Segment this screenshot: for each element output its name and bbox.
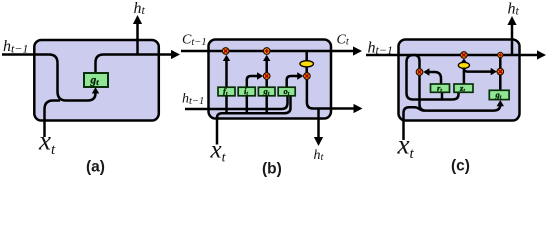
wire mulR down to cand C — [499, 75, 502, 91]
wire ellipse to mulL C — [463, 60, 466, 63]
svg-text:(a): (a) — [86, 159, 105, 176]
svg-text:ht−1: ht−1 — [368, 40, 393, 58]
gate i_t B — [238, 87, 255, 96]
arrow h right C — [537, 50, 546, 59]
svg-text:(b): (b) — [262, 161, 282, 178]
arrow into mul2 B — [257, 72, 263, 79]
wire x_t input A — [45, 101, 61, 138]
wire h line C — [366, 54, 538, 57]
svg-text:ht: ht — [134, 0, 146, 17]
cell box C — [399, 40, 520, 121]
gate r_t C — [431, 84, 450, 92]
gate cand g_t C — [489, 90, 509, 99]
wire mul2 to add B — [265, 59, 268, 73]
wire z branch to mulR C — [464, 68, 491, 72]
wire h bus B — [185, 96, 288, 109]
svg-text:xt: xt — [38, 126, 56, 159]
arrow into g_t A — [92, 87, 99, 93]
node add B — [263, 48, 270, 55]
gate f_t B — [218, 87, 235, 96]
wire h output B — [307, 79, 354, 108]
arrow into mulM C — [423, 68, 429, 75]
wire h_t down branch B — [317, 109, 320, 140]
ellipse 1-z C — [458, 62, 469, 68]
node mulR C — [497, 68, 504, 75]
svg-text:ht−1: ht−1 — [3, 38, 28, 56]
node mulL C — [461, 52, 468, 59]
wire h_{t-1} input A — [2, 55, 96, 101]
wire tanh branch B — [305, 51, 308, 61]
svg-text:xt: xt — [397, 130, 415, 163]
arrow into cand gate C — [497, 100, 504, 106]
wire z riser C — [463, 68, 466, 84]
gate g_t B — [258, 87, 275, 96]
svg-text:gt: gt — [90, 75, 100, 88]
ellipse tanh B — [300, 61, 314, 67]
gate stub i B — [246, 96, 249, 114]
gate o_t B — [278, 87, 295, 96]
node addR C — [498, 52, 503, 57]
wire f output up B — [225, 59, 228, 87]
wire x_t riser C — [404, 107, 425, 140]
gate stub g B — [265, 96, 268, 114]
wire g output A — [96, 55, 172, 74]
cell box A — [34, 40, 159, 121]
svg-text:Ct−1: Ct−1 — [182, 33, 207, 49]
svg-text:(c): (c) — [451, 158, 470, 175]
node mulM C — [416, 69, 423, 76]
arrow into mulL C — [461, 59, 468, 64]
arrow into mul3 B — [297, 72, 303, 79]
wire mulM output band C — [420, 75, 501, 110]
node mul1 B — [222, 48, 229, 55]
gate z_t C — [454, 84, 473, 92]
wire h branch to bottom bus C — [407, 55, 459, 100]
arrow into add B — [263, 55, 270, 61]
arrow h right B — [354, 104, 363, 113]
node mul3 B — [304, 73, 311, 80]
wire h_t riser A — [136, 24, 139, 55]
arrow h_t up C — [507, 16, 516, 25]
svg-text:Ct: Ct — [337, 32, 350, 47]
arrow right output A — [171, 50, 180, 59]
wire x bus B — [217, 96, 291, 145]
wire r stub C — [441, 92, 444, 99]
arrow h_t down B — [314, 137, 323, 146]
wire C line B — [181, 50, 354, 53]
arrow C_t right B — [353, 46, 362, 55]
svg-text:ht: ht — [314, 148, 325, 163]
gate stub f B — [225, 96, 228, 114]
svg-text:ht: ht — [508, 1, 520, 18]
node mul2 B — [263, 73, 270, 80]
wire o output B — [287, 76, 298, 87]
wire g output B — [265, 79, 268, 87]
wire ellipse to mul3 B — [305, 67, 308, 73]
arrow into mul1 B — [223, 55, 230, 61]
wire h_t riser C — [511, 25, 514, 56]
wire h branch to mulM C — [414, 55, 420, 69]
svg-text:xt: xt — [210, 137, 227, 166]
arrow into mulR C — [491, 68, 497, 75]
wire i output B — [247, 76, 257, 87]
arrow h_t up A — [133, 15, 142, 24]
svg-text:ht−1: ht−1 — [182, 91, 204, 107]
cell box B — [209, 40, 332, 119]
wire r output to mulM C — [429, 72, 442, 84]
gate g_t A — [84, 73, 108, 87]
wire mulR up to addR C — [499, 58, 502, 69]
